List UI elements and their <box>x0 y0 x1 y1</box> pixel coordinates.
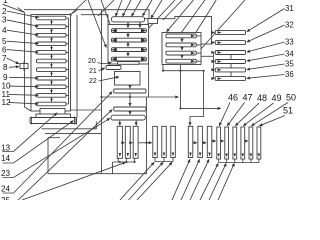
svg-text:49: 49 <box>272 93 282 103</box>
svg-text:7: 7 <box>2 54 7 63</box>
svg-text:21: 21 <box>89 68 97 75</box>
svg-text:13: 13 <box>1 143 11 152</box>
svg-text:8: 8 <box>3 63 8 72</box>
svg-text:9: 9 <box>3 73 8 82</box>
svg-text:46: 46 <box>228 93 238 103</box>
svg-text:50: 50 <box>286 93 296 103</box>
svg-text:35: 35 <box>285 60 294 69</box>
svg-text:47: 47 <box>243 93 253 103</box>
svg-text:2: 2 <box>2 7 7 16</box>
svg-text:22: 22 <box>89 78 97 85</box>
svg-text:32: 32 <box>285 21 294 30</box>
svg-text:48: 48 <box>257 93 267 103</box>
svg-text:25: 25 <box>1 196 11 200</box>
svg-text:31: 31 <box>285 4 294 13</box>
svg-text:23: 23 <box>1 169 11 178</box>
svg-text:36: 36 <box>285 70 294 79</box>
svg-text:51: 51 <box>283 106 293 116</box>
svg-text:14: 14 <box>1 154 11 163</box>
svg-text:3: 3 <box>2 16 7 25</box>
svg-text:1: 1 <box>3 0 8 5</box>
svg-text:24: 24 <box>1 185 11 194</box>
svg-text:20: 20 <box>88 58 96 65</box>
svg-text:33: 33 <box>285 38 294 47</box>
svg-text:34: 34 <box>285 50 294 59</box>
svg-text:4: 4 <box>2 26 7 35</box>
